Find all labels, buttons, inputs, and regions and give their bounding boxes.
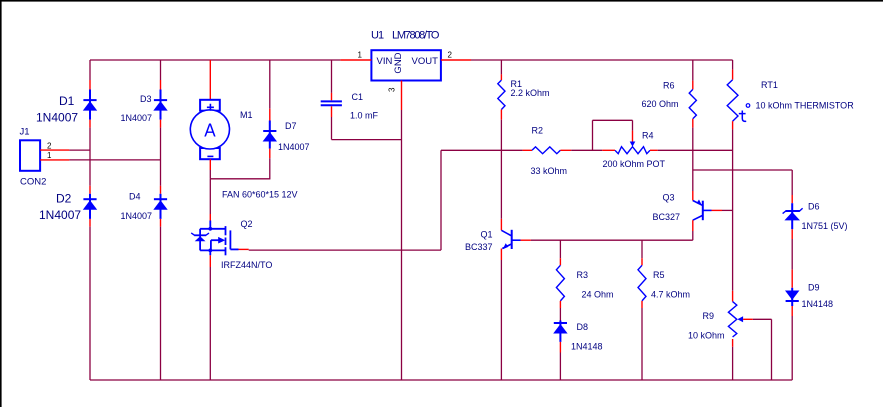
svg-text:1N4148: 1N4148 [571, 342, 603, 352]
wire D8 to bottom rail [559, 353, 561, 381]
diode D4 [160, 194, 162, 219]
zener D6 [791, 203, 793, 229]
svg-text:R2: R2 [532, 126, 544, 136]
wire D6 column top [791, 170, 793, 195]
motor M1 [200, 100, 220, 111]
resistor R9 pin top [732, 291, 734, 302]
op-amp U1 LM7808 box [371, 50, 441, 80]
wire D9 to bottom rail [791, 316, 793, 380]
svg-text:1N4007: 1N4007 [121, 211, 153, 221]
svg-text:BC327: BC327 [653, 212, 681, 222]
diode D9 [791, 288, 793, 306]
potentiometer R4 [615, 147, 650, 154]
thermistor RT1 pin bottom [732, 121, 734, 129]
diode D8 pin bottom [559, 342, 561, 353]
resistor R5 pin top [641, 258, 643, 265]
svg-text:M1: M1 [240, 110, 253, 120]
transistor Q2 source pin [209, 255, 211, 267]
svg-text:1N4007: 1N4007 [39, 208, 81, 222]
svg-text:D8: D8 [577, 322, 589, 332]
svg-text:GND: GND [393, 52, 404, 73]
wire D1 column top [89, 60, 91, 80]
transistor Q1 [501, 230, 520, 249]
connector J1 [20, 140, 40, 171]
resistor R3 pin top [559, 258, 561, 265]
wire D3 column top [160, 60, 162, 80]
svg-text:200 kOhm POT: 200 kOhm POT [603, 159, 666, 169]
resistor R1 pin bottom [500, 110, 502, 120]
diode D8 [559, 321, 561, 342]
svg-text:RT1: RT1 [761, 80, 778, 90]
J1 pin 2 [40, 149, 69, 151]
diode D4 pin top [160, 186, 162, 194]
resistor R5 [638, 265, 646, 301]
wire C1 to GND column [332, 139, 402, 141]
wire R2 to pot loop [571, 149, 602, 151]
capacitor C1 pin bottom [331, 106, 333, 117]
transistor Q1 collector pin [500, 219, 502, 231]
transistor Q3 emitter pin [692, 191, 694, 201]
R9 wiper arrow [737, 316, 743, 322]
wire rail to R1 [500, 60, 502, 74]
resistor R3 pin bottom [559, 301, 561, 308]
svg-text:2.2 kOhm: 2.2 kOhm [511, 88, 550, 98]
wire Q1 emitter to bottom rail [500, 260, 502, 380]
wire pot loop up [592, 120, 594, 150]
capacitor C1 pin top [331, 93, 333, 100]
svg-text:620 Ohm: 620 Ohm [642, 99, 679, 109]
svg-text:CON2: CON2 [20, 177, 46, 188]
resistor R6 pin top [692, 81, 694, 90]
svg-text:1: 1 [358, 51, 363, 60]
diode D7 pin top [269, 109, 271, 121]
resistor R2 pin left [523, 149, 532, 151]
svg-text:33 kOhm: 33 kOhm [531, 166, 568, 176]
transistor Q2 gate pin [239, 248, 249, 250]
resistor R6 pin bottom [692, 119, 694, 128]
diode D7 pin bottom [269, 149, 271, 159]
svg-text:24 Ohm: 24 Ohm [582, 290, 614, 300]
svg-text:LM7808/TO: LM7808/TO [392, 30, 440, 42]
wire R9 wiper right [753, 318, 772, 320]
U1 pin 3 [401, 81, 403, 111]
svg-text:1.0 mF: 1.0 mF [350, 111, 379, 121]
wire R4 to RT1 column [658, 149, 733, 151]
diode D1 [89, 90, 91, 120]
wire M1 node to D7 [210, 178, 269, 180]
wire D7 to M1 node [269, 158, 271, 179]
svg-text:VOUT: VOUT [412, 56, 439, 67]
thermistor RT1 pin top [732, 70, 734, 80]
wire D2 to bottom rail [89, 227, 91, 380]
wire top rail right segment [471, 59, 733, 61]
wire Q2 gate horizontal [249, 249, 441, 251]
wire rail to R6 [692, 60, 694, 81]
diode D7 [269, 121, 271, 149]
svg-text:D4: D4 [129, 192, 141, 202]
svg-text:R9: R9 [703, 311, 715, 321]
motor M1 pin bottom [209, 159, 211, 170]
wire bottom rail [90, 379, 792, 381]
wire D4 to bottom rail [160, 227, 162, 380]
resistor R2 pin right [560, 149, 571, 151]
svg-text:Q1: Q1 [481, 230, 493, 240]
svg-text:1N4007: 1N4007 [36, 111, 78, 125]
diode D3 [160, 90, 162, 120]
R4 wiper pin [632, 131, 634, 142]
svg-text:Q2: Q2 [241, 219, 253, 229]
transistor Q3 base pin [712, 209, 723, 211]
resistor R6 [689, 89, 696, 118]
wire rail corner to RT1 [732, 60, 734, 70]
diode D9 pin bottom [791, 306, 793, 316]
wire D7 top [269, 60, 271, 109]
svg-text:D1: D1 [59, 94, 75, 108]
svg-text:R4: R4 [642, 131, 654, 141]
resistor R3 [556, 265, 564, 301]
svg-text:2: 2 [47, 142, 52, 151]
resistor R9 pin bottom [732, 339, 734, 347]
wire Q3 collector down [692, 231, 694, 240]
svg-text:A: A [204, 121, 215, 141]
wire top rail left segment [90, 59, 340, 61]
R9 wiper pin [743, 318, 753, 320]
svg-text:4.7 kOhm: 4.7 kOhm [651, 290, 690, 300]
svg-text:3: 3 [388, 87, 397, 92]
wire row240 to R5 [641, 240, 643, 258]
resistor R4 pin right [650, 149, 658, 151]
wire D1 to D2 [89, 128, 91, 186]
svg-text:10 kOhm THERMISTOR: 10 kOhm THERMISTOR [756, 101, 855, 111]
wire pot loop top [593, 119, 633, 121]
svg-text:2: 2 [448, 51, 453, 60]
svg-text:1N4007: 1N4007 [278, 142, 310, 152]
svg-text:Q3: Q3 [663, 193, 675, 203]
wire R9 to bottom rail [732, 347, 734, 380]
wire Q2 source to bottom rail [209, 267, 211, 380]
wire D3 to D4 [160, 128, 162, 186]
svg-text:R3: R3 [577, 270, 589, 280]
wire R9 wiper drop [771, 319, 773, 380]
U1 pin 2 [441, 59, 471, 61]
resistor R2 [532, 147, 560, 154]
wire C1 top [331, 60, 333, 93]
diode D4 pin bottom [160, 219, 162, 227]
U1 pin 1 [340, 59, 371, 61]
wire C1 bottom [331, 117, 333, 140]
transistor Q2 [200, 221, 238, 256]
wire gate riser [440, 150, 442, 250]
wire Q3 base to RT1 column [722, 209, 733, 211]
potentiometer R9 [728, 302, 736, 337]
wire RT1 to R9 [732, 129, 734, 290]
diode D2 pin bottom [89, 219, 91, 227]
transistor Q3 [693, 201, 712, 221]
thermistor RT1 [727, 80, 738, 122]
wire R5 to bottom rail [641, 308, 643, 380]
wire D6 to D9 [791, 239, 793, 270]
resistor R5 pin bottom [641, 301, 643, 308]
svg-text:R5: R5 [653, 270, 665, 280]
resistor R1 [498, 80, 505, 109]
wire pot loop down [632, 120, 634, 130]
wire J1 pin1 to D3-D4 column [69, 159, 160, 161]
svg-text:FAN 60*60*15 12V: FAN 60*60*15 12V [222, 190, 298, 200]
svg-text:IRFZ44N/TO: IRFZ44N/TO [221, 260, 272, 270]
svg-text:1N4007: 1N4007 [121, 113, 153, 123]
diode D1 pin bottom [89, 120, 91, 128]
R4 wiper arrow [630, 142, 636, 147]
svg-text:C1: C1 [352, 92, 364, 102]
transistor Q2 drain pin [209, 214, 211, 221]
motor M1 pin top [209, 60, 211, 100]
frame [0, 0, 883, 2]
wire R6 to Q3 emitter [692, 128, 694, 191]
transistor Q1 base pin [521, 239, 531, 241]
wire row240 to R3 [559, 240, 561, 258]
resistor R1 pin top [500, 74, 502, 80]
transistor Q1 emitter pin [500, 249, 502, 261]
diode D6 pin bottom [791, 229, 793, 239]
wire gate row to R2 [441, 149, 523, 151]
svg-text:D7: D7 [285, 121, 297, 131]
diode D3 pin top [160, 80, 162, 90]
diode D1 pin top [89, 80, 91, 90]
svg-text:10 kOhm: 10 kOhm [688, 331, 725, 341]
svg-text:D9: D9 [808, 283, 820, 293]
transistor Q3 collector pin [692, 220, 694, 231]
J1 pin 1 [40, 159, 69, 161]
wire D6 feed horizontal [693, 169, 792, 171]
diode D2 pin top [89, 186, 91, 194]
svg-text:VIN: VIN [377, 56, 393, 67]
diode D9 pin top [791, 270, 793, 288]
capacitor C1 [321, 100, 342, 102]
svg-text:BC337: BC337 [465, 242, 493, 252]
svg-text:D6: D6 [808, 202, 820, 212]
svg-text:J1: J1 [20, 127, 30, 138]
svg-text:R6: R6 [663, 81, 675, 91]
resistor R4 pin left [602, 149, 615, 151]
diode D6 pin top [791, 195, 793, 203]
svg-text:U1: U1 [371, 30, 384, 42]
svg-text:D3: D3 [140, 94, 152, 104]
wire R1 to Q1 collector [500, 120, 502, 219]
svg-text:1: 1 [47, 151, 52, 160]
wire node to Q2 drain [209, 179, 211, 214]
diode D3 pin bottom [160, 120, 162, 128]
wire M1 to node [209, 170, 211, 179]
diode D2 [89, 194, 91, 219]
wire Q1 base to Q3 collector [531, 239, 693, 241]
svg-text:1N751 (5V): 1N751 (5V) [802, 221, 848, 231]
wire J1 pin2 to node [69, 149, 90, 151]
wire GND column to bottom rail [401, 110, 403, 380]
svg-text:D2: D2 [56, 192, 72, 206]
svg-text:1N4148: 1N4148 [802, 299, 834, 309]
wire R3 to D8 [559, 308, 561, 321]
